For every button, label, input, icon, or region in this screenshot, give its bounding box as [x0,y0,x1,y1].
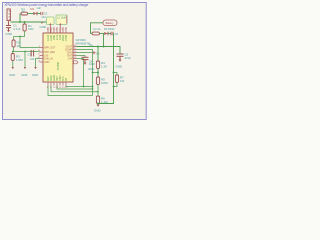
right pin names [65,45,73,60]
svg-text:VSET: VSET [60,74,62,81]
svg-text:2A: 2A [22,9,25,13]
junction node VIN [19,21,21,23]
svg-text:LX13: LX13 [57,34,59,40]
svg-text:104: 104 [30,57,35,61]
capacitor C1 [6,22,11,30]
svg-text:10R: 10R [28,27,34,31]
svg-text:GND: GND [32,73,38,77]
wire branch to pin y47.5 [20,37,40,48]
resistor R1 [24,21,26,23]
svg-text:ISET: ISET [57,75,59,81]
resistor R7 [114,73,118,76]
wire pin9 LED1 [51,86,98,92]
svg-text:AC1N: AC1N [47,34,50,40]
svg-text:GND: GND [88,67,94,71]
pin arrows from coil blocks [49,23,51,25]
svg-text:1uF: 1uF [37,6,42,10]
bottom pin numbers [47,87,68,89]
svg-text:NPP_OUT: NPP_OUT [44,46,56,49]
top pin numbers [47,29,67,31]
svg-text:VSSB: VSSB [66,34,68,41]
wire tap battery to VOUT [103,34,105,47]
ground mid drop [24,52,26,68]
wire LX4 down [77,59,84,87]
svg-text:LX24: LX24 [60,34,62,40]
svg-text:SPI4056TB: SPI4056TB [76,41,90,45]
svg-text:47uF: 47uF [125,56,132,60]
wire pin8 KEY [48,86,93,96]
svg-text:104: 104 [41,15,46,19]
ground under C1 [7,30,10,32]
border frame [3,3,147,120]
svg-text:D1: D1 [31,7,35,11]
ground under C5 [119,60,122,62]
svg-text:VDDA: VDDA [62,34,65,41]
svg-text:GND: GND [116,65,124,69]
left pin names [44,46,56,64]
capacitor C6 [111,32,113,35]
svg-text:1M: 1M [120,79,125,83]
resistor R2 [13,37,15,41]
svg-text:Battery: Battery [106,22,115,25]
wire VOUT long [77,47,121,54]
junction node VOUT [97,46,99,48]
connector J1 [7,9,10,21]
wire battery sense vertical [98,34,114,104]
wire J1 to rail [11,21,47,23]
svg-text:TX4056: TX4056 [57,61,60,70]
wire F1 to D1 [28,13,33,15]
resistor R4 [97,47,99,62]
svg-text:D3 SS34: D3 SS34 [104,27,115,31]
svg-text:10uH: 10uH [61,17,67,20]
ground under R6 [97,105,100,107]
svg-text:10uF: 10uF [89,62,95,66]
resistor R3 [12,52,14,54]
svg-text:B+: B+ [90,43,94,47]
svg-text:1.2K: 1.2K [101,64,107,68]
svg-text:LX4: LX4 [68,57,73,60]
svg-text:VINP: VINP [54,34,56,40]
svg-text:GND: GND [9,73,15,77]
bottom pin names (vertical green) [48,74,68,81]
svg-text:1M: 1M [17,44,22,48]
ground under C4 [84,63,87,65]
wire tap to R4 bottom [93,72,99,74]
svg-text:C3: C3 [28,53,32,57]
coil block ANT1 [47,17,55,25]
svg-text:C6: C6 [115,32,119,36]
svg-text:C2: C2 [44,12,48,16]
wire R2 to IC rail [14,47,40,52]
capacitor C5 [117,54,124,60]
left pin numbers [38,46,41,63]
capacitor C3 [31,50,33,57]
wire pin14 FB [66,86,93,87]
diode D3 [104,32,108,35]
resistor R6 [96,96,99,104]
battery connector BT1 [103,20,117,26]
svg-text:LED1: LED1 [51,74,53,80]
net flag pin 17 [74,61,79,64]
ground C2 [41,22,43,24]
svg-text:GND: GND [21,73,27,77]
capacitor C2 [41,12,43,15]
sheet background [0,0,150,124]
svg-text:LED2: LED2 [54,74,56,80]
wire COMP down to staircase [77,50,93,96]
svg-text:KEY: KEY [48,76,50,81]
wire R1 down-left [14,31,25,37]
svg-text:AC2P: AC2P [50,34,53,40]
fuse F2 [92,32,100,35]
svg-text:XPW100 Wireless power energy t: XPW100 Wireless power energy transmitter… [5,3,90,7]
right pin stubs [73,47,77,59]
left pin stubs [40,48,44,63]
right pin numbers [74,45,77,59]
top pin stubs [48,27,66,33]
inductor block L1 [56,15,67,25]
svg-text:4.7uF: 4.7uF [13,27,21,31]
ground under R3 [12,61,14,68]
top pin names (vertical green) [47,34,68,41]
wire D1 to C2 [37,13,41,15]
wire F1 input drop [19,14,21,23]
svg-text:F2 2A: F2 2A [94,27,101,31]
capacitor C4 [82,57,89,62]
wire CHG net [77,52,93,54]
svg-text:GND: GND [6,32,14,36]
svg-text:GND: GND [94,109,102,113]
wire BAT to C4 [77,56,86,58]
wire pin12 to ground [36,59,40,68]
svg-text:GND: GND [44,61,50,64]
diode D1 [33,12,37,15]
svg-text:100K: 100K [101,81,108,85]
svg-text:NTC: NTC [63,76,65,81]
wire pin11 ISET [57,86,93,90]
resistor R5 [96,77,99,85]
bottom pin stubs [48,82,66,86]
svg-text:1.5M: 1.5M [16,58,23,62]
svg-text:FB: FB [66,77,68,80]
fuse F1 [21,12,28,15]
